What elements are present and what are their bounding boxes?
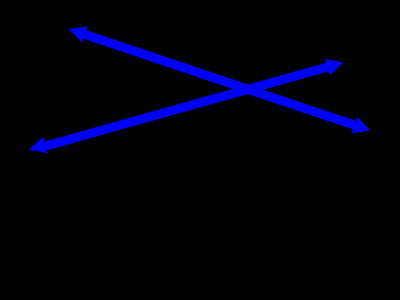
arrowhead line B bottom-left (29, 137, 48, 153)
arrowhead line B top-right (325, 59, 344, 75)
arrowhead line A bottom-right (352, 117, 371, 133)
wire line B (bottom-left to top-right) (44, 67, 330, 147)
arrowhead line A top-left (69, 26, 88, 42)
wire line A (top-left to bottom-right) (83, 34, 356, 126)
